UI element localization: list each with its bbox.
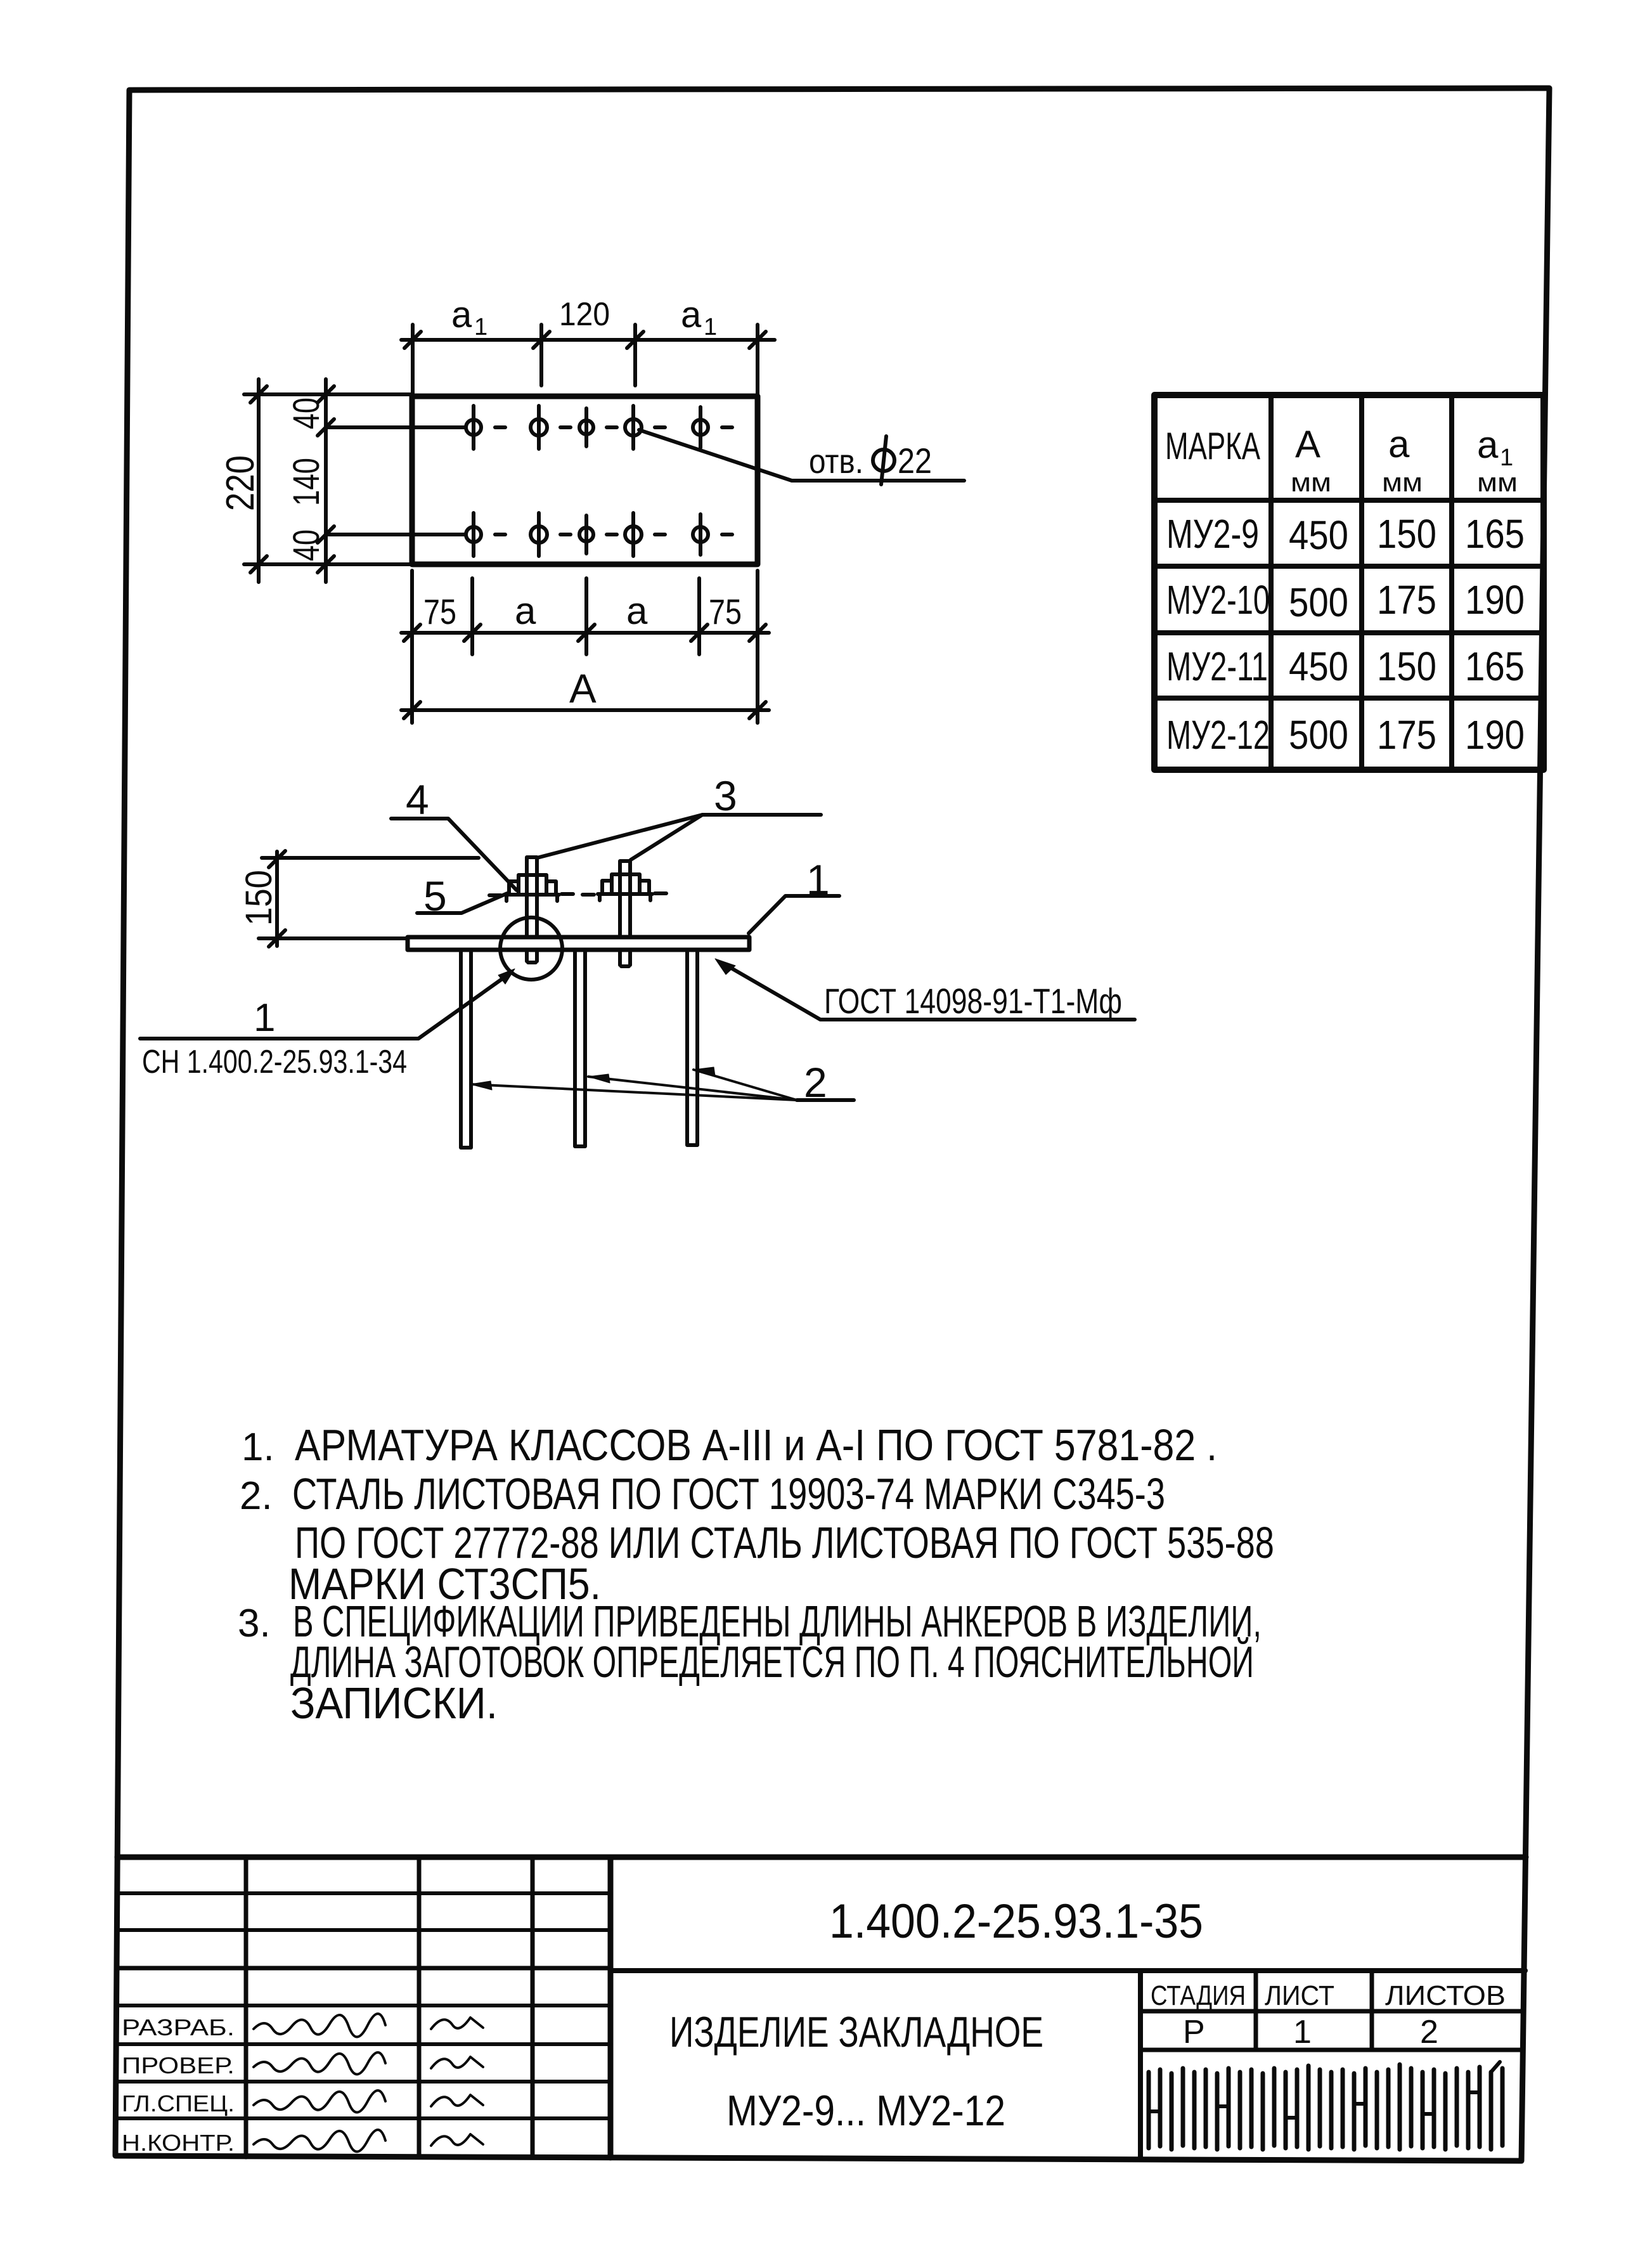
anchor bar right	[687, 950, 697, 1145]
svg-text:ИЗДЕЛИЕ ЗАКЛАДНОЕ: ИЗДЕЛИЕ ЗАКЛАДНОЕ	[669, 2008, 1043, 2056]
stage table texts	[1151, 1980, 1506, 2051]
svg-text:ГЛ.СПЕЦ.: ГЛ.СПЕЦ.	[122, 2090, 235, 2116]
svg-text:МУ2-9... МУ2-12: МУ2-9... МУ2-12	[726, 2087, 1005, 2135]
plate edge extension lines left	[244, 394, 412, 564]
svg-text:МУ2-9: МУ2-9	[1166, 511, 1259, 557]
stud 1 (bolt)	[527, 857, 537, 962]
svg-text:165: 165	[1465, 644, 1525, 689]
svg-text:1.400.2-25.93.1-35: 1.400.2-25.93.1-35	[829, 1895, 1203, 1948]
hole centerline ticks	[452, 406, 732, 556]
holes bottom row	[466, 526, 708, 543]
svg-text:175: 175	[1377, 712, 1436, 758]
callout 2 anchors	[804, 1059, 827, 1106]
svg-text:75: 75	[709, 592, 742, 632]
callout 4	[406, 776, 429, 823]
svg-text:мм: мм	[1477, 467, 1518, 497]
svg-text:A: A	[569, 666, 597, 711]
anchor bar middle	[575, 950, 585, 1146]
stage table	[1140, 1972, 1523, 2158]
table row 1	[1166, 511, 1525, 558]
svg-text:ЗАПИСКИ.: ЗАПИСКИ.	[290, 1678, 498, 1728]
svg-text:450: 450	[1289, 512, 1348, 558]
label otv d22	[809, 441, 932, 481]
table grid	[1154, 395, 1544, 770]
svg-text:75: 75	[423, 592, 456, 632]
callout 3	[714, 772, 737, 819]
svg-text:СТАЛЬ ЛИСТОВАЯ ПО ГОСТ 19903-7: СТАЛЬ ЛИСТОВАЯ ПО ГОСТ 19903-74 МАРКИ С3…	[292, 1469, 1165, 1519]
callout 5	[423, 872, 447, 919]
svg-text:190: 190	[1465, 712, 1525, 758]
svg-text:190: 190	[1465, 577, 1525, 623]
doc number	[829, 1895, 1203, 1948]
svg-text:3.: 3.	[238, 1602, 271, 1645]
svg-text:175: 175	[1377, 577, 1436, 623]
svg-text:ЛИСТОВ: ЛИСТОВ	[1385, 1980, 1506, 2011]
svg-text:МАРКА: МАРКА	[1165, 425, 1260, 467]
svg-text:a: a	[626, 590, 648, 632]
svg-text:ПРОВЕР.: ПРОВЕР.	[122, 2052, 235, 2078]
dim text a1 left	[451, 294, 487, 340]
stud 2 (bolt)	[620, 861, 630, 966]
svg-text:ЛИСТ: ЛИСТ	[1265, 1980, 1334, 2011]
svg-text:1: 1	[1293, 2014, 1312, 2051]
dim text 40 bottom	[286, 529, 327, 561]
dimension 40/140/40 (left)	[318, 379, 334, 582]
svg-text:140: 140	[286, 458, 327, 506]
svg-text:СТАДИЯ: СТАДИЯ	[1151, 1980, 1246, 2011]
svg-text:a: a	[681, 294, 702, 335]
svg-text:a: a	[515, 590, 536, 632]
svg-text:150: 150	[238, 870, 280, 926]
table row 3	[1166, 644, 1525, 689]
dimension 220 (left)	[250, 379, 267, 582]
dim text 140	[286, 458, 327, 506]
bottom dimension line 75/a/a/75	[401, 571, 769, 723]
dim text a1 right	[681, 294, 717, 340]
svg-text:150: 150	[1377, 511, 1436, 557]
svg-text:отв.: отв.	[809, 443, 863, 481]
svg-text:40: 40	[286, 529, 327, 561]
svg-text:ГОСТ 14098-91-Т1-Мф: ГОСТ 14098-91-Т1-Мф	[824, 981, 1122, 1021]
nut 2	[583, 874, 666, 900]
svg-text:СН 1.400.2-25.93.1-34: СН 1.400.2-25.93.1-34	[142, 1044, 407, 1080]
dim text 75 left	[423, 590, 742, 632]
svg-text:а: а	[1477, 424, 1499, 466]
svg-text:мм: мм	[1382, 467, 1423, 497]
diameter symbol	[873, 436, 894, 484]
dim text 220	[219, 455, 262, 511]
svg-text:40: 40	[286, 398, 327, 429]
svg-text:4: 4	[406, 776, 429, 823]
svg-text:2: 2	[1420, 2014, 1438, 2051]
dim text A	[569, 666, 597, 711]
svg-text:500: 500	[1289, 580, 1348, 625]
svg-text:2.: 2.	[240, 1474, 273, 1518]
signatures scribble	[431, 2018, 483, 2146]
plate side view	[408, 937, 749, 950]
svg-text:1: 1	[474, 314, 487, 340]
title block grid	[117, 1857, 1526, 2158]
svg-text:мм: мм	[1291, 467, 1331, 497]
svg-text:1.: 1.	[242, 1425, 274, 1469]
table row 2	[1166, 577, 1525, 625]
title text line 2	[726, 2087, 1005, 2135]
svg-text:АРМАТУРА КЛАССОВ А-III и А-: АРМАТУРА КЛАССОВ А-III и А-I ПО ГОСТ 578…	[295, 1420, 1217, 1470]
svg-text:1: 1	[704, 314, 717, 340]
dim text 150	[238, 870, 280, 926]
svg-text:а: а	[1388, 423, 1410, 465]
detail circle	[500, 917, 562, 980]
svg-text:a: a	[451, 294, 472, 335]
svg-text:120: 120	[559, 296, 610, 333]
title text line 1	[669, 2008, 1043, 2056]
series label CH 1.400.2	[142, 996, 407, 1080]
holes top row	[466, 419, 708, 436]
svg-text:150: 150	[1377, 644, 1436, 689]
weld label GOST 14098	[824, 981, 1122, 1021]
svg-text:450: 450	[1289, 644, 1348, 689]
signature rows labels	[122, 2014, 235, 2156]
svg-text:22: 22	[898, 441, 932, 481]
hole diameter leader	[639, 430, 964, 481]
plate outline plan	[412, 396, 758, 564]
top dimension line a1/120/a1	[401, 325, 775, 396]
svg-text:3: 3	[714, 772, 737, 819]
svg-text:Н.КОНТР.: Н.КОНТР.	[122, 2130, 235, 2156]
dim text 40 top	[286, 398, 327, 429]
dimension 150 side	[259, 851, 479, 947]
svg-text:500: 500	[1289, 712, 1348, 758]
org name hatch	[1149, 2062, 1502, 2149]
svg-text:МУ2-10: МУ2-10	[1166, 577, 1270, 623]
svg-text:РАЗРАБ.: РАЗРАБ.	[122, 2014, 235, 2040]
anchor bar left	[461, 950, 471, 1148]
svg-text:А: А	[1295, 423, 1320, 465]
svg-text:220: 220	[219, 455, 262, 511]
nut 1	[489, 875, 573, 901]
NOTES	[238, 1420, 1274, 1728]
svg-text:МУ2-12: МУ2-12	[1166, 712, 1270, 758]
svg-text:165: 165	[1465, 511, 1525, 557]
dim text 120	[559, 296, 610, 333]
svg-text:Р: Р	[1183, 2014, 1205, 2051]
row centerlines to left dims	[326, 427, 465, 535]
svg-text:1: 1	[254, 996, 275, 1040]
table header	[1165, 423, 1518, 497]
callout 1	[806, 856, 830, 903]
table row 4	[1166, 712, 1525, 758]
signature rows names scribble	[254, 2014, 385, 2152]
dimension A	[401, 702, 769, 718]
svg-text:МУ2-11: МУ2-11	[1166, 644, 1268, 689]
